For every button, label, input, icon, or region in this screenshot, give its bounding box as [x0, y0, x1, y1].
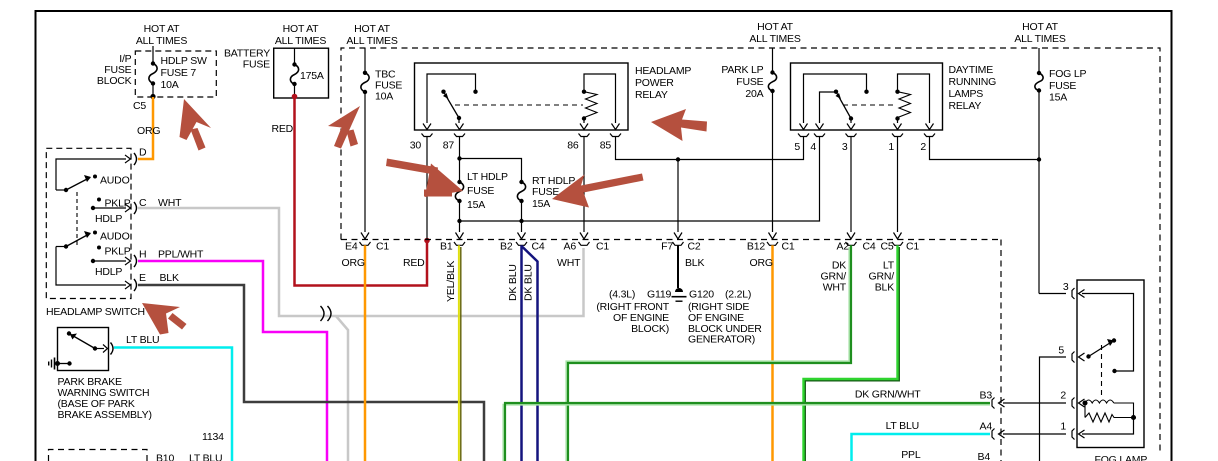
- connector B3: [992, 398, 1005, 409]
- svg-text:(4.3L): (4.3L): [609, 289, 635, 301]
- wire ORG from C5 to headlamp switch D: [138, 97, 153, 159]
- DRL terminal 4 bottom connector: [814, 124, 825, 140]
- label: PARK BRAKE WARNING SWITCH caption: [58, 376, 152, 421]
- svg-text:FUSE 7: FUSE 7: [161, 67, 197, 79]
- svg-text:15A: 15A: [1049, 92, 1067, 104]
- svg-text:DK BLU: DK BLU: [523, 264, 535, 301]
- svg-text:HDLP SW: HDLP SW: [161, 55, 208, 67]
- relay linkage dashed: [455, 104, 583, 106]
- mechanical link dashed between poles: [76, 192, 78, 246]
- svg-text:3: 3: [1063, 281, 1069, 293]
- svg-text:HEADLAMP: HEADLAMP: [635, 65, 691, 77]
- label: BATTERY FUSE: [224, 48, 270, 71]
- svg-text:RED: RED: [272, 123, 294, 135]
- svg-text:BLK: BLK: [685, 257, 704, 269]
- DRL terminal 2 bottom connector: [924, 124, 935, 140]
- park brake switch arm: [67, 331, 108, 352]
- svg-text:175A: 175A: [300, 70, 324, 82]
- fuse RT HDLP 15A: [517, 175, 575, 210]
- svg-text:HDLP: HDLP: [95, 213, 122, 225]
- svg-text:LAMPS: LAMPS: [949, 88, 984, 100]
- fog relay terminal 5 connector: [1072, 352, 1085, 363]
- svg-text:2: 2: [920, 141, 926, 153]
- headlamp power relay box: [415, 63, 629, 130]
- fog relay internal wire 3: [1082, 294, 1134, 372]
- svg-text:RUNNING: RUNNING: [949, 76, 997, 88]
- annotation arrow 4 (at RT HDLP fuse): [552, 174, 644, 208]
- svg-text:5: 5: [1058, 345, 1064, 357]
- fog relay terminal 3 connector: [1072, 288, 1085, 299]
- svg-text:BRAKE ASSEMBLY): BRAKE ASSEMBLY): [58, 409, 152, 421]
- svg-text:HEADLAMP SWITCH: HEADLAMP SWITCH: [46, 306, 145, 318]
- svg-text:ALL TIMES: ALL TIMES: [275, 35, 327, 47]
- terminal C connector: [134, 202, 137, 214]
- fuse TBC 10A: [361, 48, 403, 232]
- wire DRL 2 to fog lp fuse junction: [930, 140, 1040, 160]
- svg-text:HOT AT: HOT AT: [354, 23, 391, 35]
- svg-text:1: 1: [1060, 421, 1066, 433]
- fuse LT HDLP 15A: [455, 171, 508, 211]
- svg-text:(2.2L): (2.2L): [725, 289, 751, 301]
- wire A4 to fog relay 1: [1003, 433, 1066, 435]
- fog relay linkage dashed: [1101, 345, 1103, 399]
- wire relay 87 to headlamp fuses: [460, 140, 522, 183]
- svg-text:C4: C4: [863, 241, 876, 253]
- connector B1: [454, 233, 465, 246]
- svg-text:PPL: PPL: [901, 449, 921, 461]
- annotation arrow 6 (at headlamp switch): [142, 303, 187, 335]
- headlamp switch internal wire to D: [56, 155, 131, 190]
- svg-text:RELAY: RELAY: [949, 100, 982, 112]
- wire fuse outputs to DRL relay terminal 4: [460, 140, 820, 222]
- svg-text:HOT AT: HOT AT: [757, 21, 794, 33]
- label: HOT AT ALL TIMES (battery fuse): [275, 23, 327, 47]
- svg-text:FUSE: FUSE: [532, 186, 559, 198]
- svg-text:HOT AT: HOT AT: [283, 23, 320, 35]
- svg-text:ALL TIMES: ALL TIMES: [749, 33, 801, 45]
- svg-text:1: 1: [888, 141, 894, 153]
- svg-text:WHT: WHT: [823, 282, 847, 294]
- svg-text:RELAY: RELAY: [635, 89, 668, 101]
- svg-text:FUSE: FUSE: [1049, 80, 1076, 92]
- fuse HDLP SW FUSE 7 10A: [149, 46, 207, 99]
- wire ORG below B12: [771, 245, 774, 461]
- svg-text:H: H: [139, 249, 146, 261]
- connector F7/C2: [673, 233, 684, 246]
- battery fuse box: [274, 48, 329, 98]
- svg-text:15A: 15A: [532, 198, 550, 210]
- fuse PARK LP 20A: [721, 48, 776, 232]
- DRL coil (1/2): [895, 74, 929, 123]
- svg-text:D: D: [139, 147, 147, 159]
- wire LT BLU from park brake switch: [114, 348, 232, 461]
- svg-text:10A: 10A: [375, 91, 393, 103]
- svg-text:FUSE: FUSE: [736, 76, 763, 88]
- connector A6/C1: [579, 233, 590, 246]
- fuse BATTERY 175A: [290, 48, 324, 97]
- svg-text:4: 4: [810, 141, 816, 153]
- wire relay 30 to splice with battery RED: [426, 140, 428, 240]
- label: LT GRN/BLK (C5): [869, 260, 895, 294]
- svg-text:3: 3: [842, 141, 848, 153]
- svg-text:ALL TIMES: ALL TIMES: [346, 35, 398, 47]
- wire fog relay 5 external: [1040, 357, 1067, 461]
- terminal H connector: [134, 255, 137, 267]
- fog lamp relay box: [1077, 280, 1144, 448]
- svg-text:DK BLU: DK BLU: [507, 264, 519, 301]
- terminal E connector: [134, 279, 137, 291]
- fog relay terminal 1 connector: [1072, 429, 1085, 440]
- label: (RIGHT FRONT OF ENGINE BLOCK): [596, 301, 669, 335]
- terminal D connector: [134, 153, 137, 165]
- svg-text:86: 86: [567, 140, 579, 152]
- svg-text:C1: C1: [782, 241, 795, 253]
- svg-text:5: 5: [794, 141, 800, 153]
- switch pole 1: [56, 175, 97, 193]
- svg-text:E4: E4: [345, 241, 358, 253]
- I/P fuse block dashed box: [135, 51, 216, 97]
- svg-text:ALL TIMES: ALL TIMES: [1014, 33, 1066, 45]
- label: HEADLAMP POWER RELAY: [635, 65, 691, 101]
- svg-text:F7: F7: [661, 241, 673, 253]
- annotation arrow 5 (at headlamp power relay): [651, 109, 707, 141]
- underhood dashed box: [341, 48, 1160, 461]
- svg-text:DAYTIME: DAYTIME: [949, 64, 994, 76]
- wire relay 86 to A6: [583, 140, 585, 233]
- contact HDLP (pole 2) wire to H: [91, 257, 131, 265]
- DRL terminal 3 bottom connector: [846, 124, 857, 140]
- svg-text:G119: G119: [647, 289, 671, 301]
- wire DK GRN/WHT below A2: [566, 247, 849, 461]
- daytime running lamps relay box: [791, 63, 943, 130]
- relay coil (86/85): [582, 74, 616, 123]
- connector B2/C4: [516, 233, 527, 246]
- wire PPL/WHT from H (magenta): [138, 261, 327, 461]
- svg-text:LT HDLP: LT HDLP: [467, 171, 508, 183]
- relay terminal 86 bottom connector: [579, 124, 590, 140]
- connector C5/C1: [892, 233, 903, 246]
- svg-text:AUDO: AUDO: [100, 231, 130, 243]
- wire YEL/BLK below B1: [458, 245, 460, 461]
- svg-text:FUSE: FUSE: [467, 185, 494, 197]
- wire DK BLU 2 below B2 (diagonal): [522, 246, 538, 461]
- wire LT fuse to B1: [459, 201, 461, 232]
- DRL internal wire terminal 5: [804, 74, 867, 123]
- svg-text:B1: B1: [440, 241, 453, 253]
- svg-text:LT BLU: LT BLU: [189, 453, 222, 461]
- park brake warning switch box: [58, 328, 109, 371]
- label: HOT AT ALL TIMES (park lp fuse): [749, 21, 801, 45]
- ground symbol G119/G120: [672, 288, 687, 301]
- headlamp switch dashed box: [46, 148, 131, 298]
- annotation arrow 1 (at HDLP SW fuse): [180, 99, 212, 151]
- svg-text:A4: A4: [980, 421, 993, 433]
- label: DAYTIME RUNNING LAMPS RELAY: [949, 64, 997, 112]
- DRL internal wire terminal 4 to pivot: [820, 92, 835, 123]
- svg-text:B2: B2: [500, 241, 513, 253]
- label: HOT AT ALL TIMES (fog lp fuse): [1014, 21, 1066, 45]
- relay terminal 87 bottom connector: [454, 124, 465, 140]
- svg-text:B10: B10: [156, 453, 174, 461]
- wire RED battery to relay 30: [292, 94, 430, 286]
- svg-text:HDLP: HDLP: [95, 266, 122, 278]
- svg-text:E: E: [139, 272, 146, 284]
- switch pole 2 common wire to E: [56, 247, 131, 290]
- fuse FOG LP 15A: [1035, 48, 1087, 294]
- svg-text:FOG LP: FOG LP: [1049, 68, 1087, 80]
- svg-text:WHT: WHT: [557, 257, 581, 269]
- svg-text:C4: C4: [532, 241, 545, 253]
- connector A4: [992, 429, 1005, 440]
- svg-text:2: 2: [1060, 390, 1066, 402]
- DRL terminal 1 bottom connector: [892, 124, 903, 140]
- svg-text:ORG: ORG: [342, 257, 365, 269]
- wire WHT branch down (gray): [336, 316, 348, 461]
- svg-text:PARK LP: PARK LP: [721, 64, 763, 76]
- svg-text:G120: G120: [689, 289, 714, 301]
- wire LT GRN/BLK below C5: [805, 247, 899, 461]
- svg-text:B12: B12: [747, 241, 765, 253]
- svg-text:10A: 10A: [161, 79, 179, 91]
- svg-text:B3: B3: [980, 390, 993, 402]
- wire RT fuse to B2: [521, 201, 523, 232]
- svg-text:BLOCK): BLOCK): [631, 323, 669, 335]
- svg-text:HOT AT: HOT AT: [144, 23, 181, 35]
- svg-text:HOT AT: HOT AT: [1022, 21, 1059, 33]
- svg-text:C5: C5: [880, 241, 893, 253]
- label: I/P FUSE BLOCK: [97, 53, 132, 87]
- svg-text:ALL TIMES: ALL TIMES: [136, 35, 188, 47]
- svg-text:ORG: ORG: [137, 125, 160, 137]
- svg-text:AUDO: AUDO: [100, 175, 130, 187]
- svg-text:C1: C1: [376, 241, 389, 253]
- svg-text:C1: C1: [596, 241, 609, 253]
- label: HOT AT ALL TIMES (I/P fuse block): [136, 23, 188, 47]
- wire BLK from E (dark): [138, 285, 484, 461]
- fog relay switch arm: [1086, 338, 1116, 358]
- contact HDLP (pole 1) wire to C: [91, 204, 131, 212]
- connector B12/C1: [767, 233, 778, 246]
- svg-text:LT BLU: LT BLU: [126, 334, 159, 346]
- svg-text:RED: RED: [403, 257, 425, 269]
- switch pole 2: [56, 231, 97, 249]
- svg-text:FUSE: FUSE: [243, 59, 270, 71]
- annotation arrow 2 (at TBC fuse): [328, 106, 360, 149]
- svg-text:87: 87: [443, 140, 455, 152]
- DRL switch arm: [834, 90, 853, 124]
- svg-text:85: 85: [600, 140, 612, 152]
- svg-text:YEL/BLK: YEL/BLK: [445, 261, 457, 302]
- connector A2/C4: [846, 233, 857, 246]
- wire DK BLU 1 below B2: [520, 245, 523, 461]
- connector E4/C1: [360, 233, 371, 246]
- park brake switch connector: [111, 343, 114, 355]
- svg-text:LT BLU: LT BLU: [886, 420, 919, 432]
- wire BLK below F7 to ground: [677, 245, 679, 288]
- fog relay coil: [1083, 400, 1136, 422]
- park brake ground: [49, 358, 72, 370]
- relay terminal 30 bottom connector: [422, 124, 433, 140]
- svg-text:B4: B4: [978, 451, 991, 461]
- relay internal wire terminal 30: [427, 74, 476, 123]
- contact PKLP (pole 1): [97, 198, 101, 202]
- svg-text:1134: 1134: [202, 431, 224, 443]
- wire fog fuse to fog relay 3: [1039, 293, 1066, 295]
- fog relay terminal 2 connector: [1072, 398, 1085, 409]
- in-line connector break )) on WHT wire: [321, 306, 332, 321]
- wire WHT from C (gray): [138, 208, 584, 316]
- DRL terminal 5 bottom connector: [798, 124, 809, 140]
- svg-text:PPL/WHT: PPL/WHT: [158, 249, 204, 261]
- label: (RIGHT SIDE OF ENGINE BLOCK UNDER GENERATOR): [688, 301, 762, 346]
- wire LT BLU to A4: [852, 434, 991, 461]
- wire DRL 1 to C5: [897, 140, 899, 233]
- svg-text:ORG: ORG: [750, 257, 773, 269]
- relay terminal 85 bottom connector: [610, 124, 621, 140]
- svg-text:BLOCK: BLOCK: [97, 75, 132, 87]
- cluster dashed box corner: [49, 450, 148, 461]
- label: HOT AT ALL TIMES (TBC fuse): [346, 23, 398, 47]
- fog relay internal wire 1: [1082, 418, 1134, 435]
- svg-text:C5: C5: [133, 100, 146, 112]
- svg-text:GENERATOR): GENERATOR): [688, 334, 755, 346]
- svg-text:POWER: POWER: [635, 77, 674, 89]
- wire ORG below E4: [364, 245, 367, 461]
- annotation arrow 3 (at LT HDLP fuse): [386, 159, 463, 198]
- svg-text:BLK: BLK: [875, 282, 894, 294]
- contact PKLP (pole 2): [97, 246, 101, 250]
- svg-text:DK GRN/WHT: DK GRN/WHT: [855, 389, 921, 401]
- wire DK GRN/WHT to B3: [503, 405, 990, 461]
- svg-text:A6: A6: [564, 241, 577, 253]
- svg-text:FOG LAMP: FOG LAMP: [1095, 454, 1148, 461]
- svg-text:30: 30: [410, 140, 422, 152]
- wire DRL 3 to A2: [850, 140, 852, 233]
- svg-text:20A: 20A: [745, 88, 763, 100]
- svg-text:15A: 15A: [467, 199, 485, 211]
- svg-text:A2: A2: [837, 241, 850, 253]
- wire relay 85 to DRL terminal 5 and F7: [616, 140, 804, 233]
- svg-text:BLK: BLK: [160, 272, 179, 284]
- relay switch arm (30/87): [441, 90, 461, 124]
- svg-text:C2: C2: [688, 241, 701, 253]
- svg-text:PKLP: PKLP: [105, 246, 131, 258]
- label: DK GRN/WHT (A2): [821, 260, 847, 294]
- wire B3 to fog relay 2: [1003, 402, 1066, 404]
- svg-text:C1: C1: [906, 241, 919, 253]
- DRL linkage dashed: [843, 104, 896, 106]
